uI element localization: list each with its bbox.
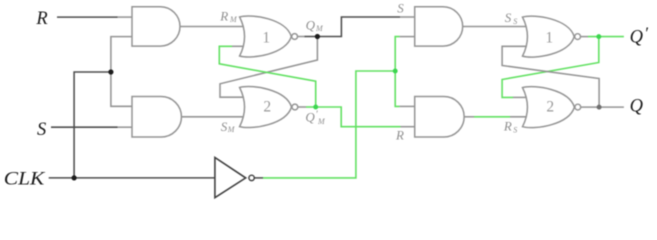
svg-text:Q: Q xyxy=(630,97,644,117)
svg-text:S: S xyxy=(221,119,228,134)
wire NOR1 in2 lead xyxy=(232,45,245,47)
and gate A2 (S AND CLK) xyxy=(132,97,181,138)
node CLK' junction xyxy=(393,69,398,74)
wire CLK' to AND3 in2 (green) xyxy=(395,37,399,71)
svg-text:CLK: CLK xyxy=(4,170,46,190)
node Q'_M xyxy=(313,105,318,110)
wire net Q' (green) xyxy=(588,36,624,38)
svg-text:′: ′ xyxy=(644,23,648,42)
svg-text:S: S xyxy=(37,120,46,140)
node CLK distribution junction xyxy=(108,69,113,74)
wire NOR3 output stub xyxy=(581,36,588,38)
wire NOR1 output stub xyxy=(298,36,305,38)
nor gate 1 slave (output Q') xyxy=(523,16,581,57)
nor gate 2 master (output Q'_M) xyxy=(240,87,298,128)
svg-text:Q: Q xyxy=(630,28,644,48)
wire Q_M node segment xyxy=(305,36,318,38)
wire lead into AND3 in2 xyxy=(400,36,415,38)
svg-text:2: 2 xyxy=(546,99,554,116)
svg-text:2: 2 xyxy=(263,99,271,116)
svg-text:S: S xyxy=(397,1,404,16)
wire net R_M (AND1 out to NOR1 in1) xyxy=(180,26,245,28)
wire inverter output stub xyxy=(254,177,263,179)
and gate A3 (S AND CLK') xyxy=(415,7,463,46)
nor gate 2 slave (output Q) xyxy=(523,87,581,128)
wire Q'_M to slave R (green) xyxy=(316,107,401,127)
wire Q_M to slave S (black) xyxy=(317,17,400,37)
svg-text:R: R xyxy=(35,9,47,29)
svg-text:S: S xyxy=(513,17,517,26)
wire CLK branch vertical xyxy=(74,72,111,178)
wire S lead into AND2 xyxy=(118,126,133,128)
node Q xyxy=(597,105,602,110)
svg-text:R: R xyxy=(219,9,228,24)
and gate A1 (R AND CLK) xyxy=(132,7,180,46)
svg-text:S: S xyxy=(505,10,512,25)
svg-text:R: R xyxy=(395,128,404,143)
wire CLK' to AND4 in1 (green) xyxy=(395,71,399,106)
svg-text:S: S xyxy=(513,125,517,134)
svg-text:M: M xyxy=(229,15,238,24)
svg-text:1: 1 xyxy=(545,29,553,46)
wire NOR4 in1 lead xyxy=(513,96,528,98)
wire lead into AND4 in1 xyxy=(400,105,415,107)
wire net S_S (AND3 out to NOR3 in1) xyxy=(463,26,528,28)
wire NOR2 output stub xyxy=(298,106,306,108)
wire lead into AND3 in1 xyxy=(400,16,415,18)
wire R input xyxy=(57,16,118,18)
and gate A4 (R AND CLK') xyxy=(415,97,464,138)
svg-text:R: R xyxy=(503,119,512,134)
svg-text:M: M xyxy=(317,117,326,126)
wire net S_M (AND2 out to NOR2 in2) xyxy=(182,116,246,118)
wire CLK branch to AND2 in1 xyxy=(111,72,133,106)
wire CLK branch to AND1 in2 xyxy=(111,37,133,72)
wire AND4 output lead xyxy=(464,116,474,118)
wire feedback Q' to NOR4 in1 (green) xyxy=(502,37,599,98)
wire net Q'_M green at output xyxy=(306,106,316,108)
wire net Q (gray) xyxy=(581,106,624,108)
node CLK junction xyxy=(72,175,77,180)
wire feedback Q'_M to NOR1 in2 (green) xyxy=(219,46,315,107)
wire S input xyxy=(51,126,118,128)
node Q' xyxy=(596,34,601,39)
wire feedback Q to NOR3 in2 (gray) xyxy=(502,46,599,107)
wire NOR4 in2 lead xyxy=(510,116,528,118)
svg-text:1: 1 xyxy=(262,29,270,46)
svg-text:Q: Q xyxy=(305,110,315,125)
wire CLK' (green) xyxy=(263,71,395,178)
inverter U5 (CLK to CLK') xyxy=(215,158,254,198)
wire feedback Q_M to NOR2 in1 (gray) xyxy=(220,37,317,98)
svg-text:M: M xyxy=(227,125,236,134)
wire lead into AND4 in2 xyxy=(401,126,416,128)
wire net R_S green segment xyxy=(474,116,510,118)
wire R lead into AND1 xyxy=(118,16,133,18)
svg-text:M: M xyxy=(315,24,324,33)
svg-text:Q: Q xyxy=(306,17,316,32)
node Q_M xyxy=(315,34,320,39)
wire CLK input xyxy=(49,177,215,179)
nor gate 1 master (output Q_M) xyxy=(240,16,298,57)
